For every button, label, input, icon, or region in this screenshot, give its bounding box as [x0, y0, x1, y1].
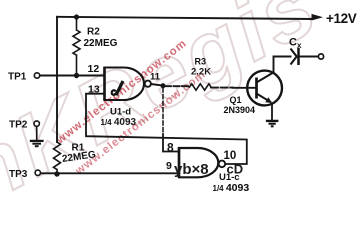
svg-text:+12V: +12V: [326, 11, 357, 26]
wire pin11 junction down to pin 8: [162, 88, 164, 134]
svg-text:13: 13: [88, 84, 100, 96]
terminal TP2: [34, 121, 39, 126]
wire +12V top rail: [57, 17, 313, 19]
wire Cx to terminal: [298, 56, 318, 58]
wire collector to Cx: [274, 57, 291, 73]
svg-text:Q1: Q1: [230, 95, 242, 105]
resistor R2: [73, 17, 80, 76]
ground TP2: [30, 141, 44, 146]
junction pin 11: [161, 83, 166, 88]
wire TP2 ground stub: [36, 126, 38, 140]
svg-text:1/4 4093: 1/4 4093: [101, 117, 137, 128]
terminal TP3: [35, 170, 40, 175]
transistor Q1 circle: [247, 71, 282, 106]
svg-text:12: 12: [88, 63, 100, 75]
emitter arrow: [265, 97, 272, 103]
terminal Cx output: [318, 54, 323, 59]
svg-text:R3: R3: [195, 57, 207, 67]
transistor Q1 emitter stroke: [257, 94, 272, 103]
op-amp gate U1-d body: [105, 68, 145, 101]
svg-text:22MEG: 22MEG: [84, 38, 118, 49]
resistor R3: [190, 84, 212, 90]
transistor Q1 collector stroke: [257, 73, 273, 83]
transistor Q1 base bar: [255, 78, 258, 99]
junction TP3 / R1: [54, 171, 59, 176]
capacitor Cx chevron plate: [291, 49, 297, 65]
svg-text:yb×8: yb×8: [174, 161, 209, 178]
svg-text:8: 8: [167, 140, 174, 154]
svg-text:TP2: TP2: [9, 120, 28, 131]
wire R3 to Q1 base: [211, 87, 233, 89]
schmitt symbol U1-d: [116, 81, 123, 95]
svg-text:2.2K: 2.2K: [191, 67, 211, 78]
svg-text:R2: R2: [87, 27, 100, 38]
svg-text:10: 10: [224, 150, 237, 162]
svg-text:TP3: TP3: [9, 169, 28, 180]
junction R2 top: [74, 14, 79, 19]
capacitor Cx bar plate: [297, 48, 300, 65]
op-amp gate U1-c body: [179, 148, 218, 177]
resistor R1: [54, 142, 61, 174]
ground Q1 emitter: [266, 121, 279, 126]
terminal TP1: [34, 73, 39, 78]
wire output to R3 (dashed scan): [165, 85, 190, 87]
svg-text:TP1: TP1: [8, 72, 27, 83]
bubble U1-d output: [145, 81, 151, 87]
wire emitter to ground: [271, 105, 273, 120]
wire left rail: [56, 17, 58, 142]
svg-text:1/4 4093: 1/4 4093: [213, 182, 250, 194]
junction R2 bottom / TP1: [74, 73, 79, 78]
svg-text:9: 9: [166, 160, 172, 172]
svg-text:2N3904: 2N3904: [224, 105, 256, 115]
svg-text:U1-d: U1-d: [110, 107, 131, 118]
wire TP1 to gate pin 12: [40, 75, 105, 77]
wire U1-d output: [151, 84, 163, 86]
arrow +12V: [312, 14, 324, 21]
bubble U1-c output: [219, 161, 226, 168]
wire TP3 to gate pin 9: [41, 172, 179, 174]
wire pin 13 feedback: [86, 94, 247, 164]
svg-text:11: 11: [150, 71, 161, 82]
